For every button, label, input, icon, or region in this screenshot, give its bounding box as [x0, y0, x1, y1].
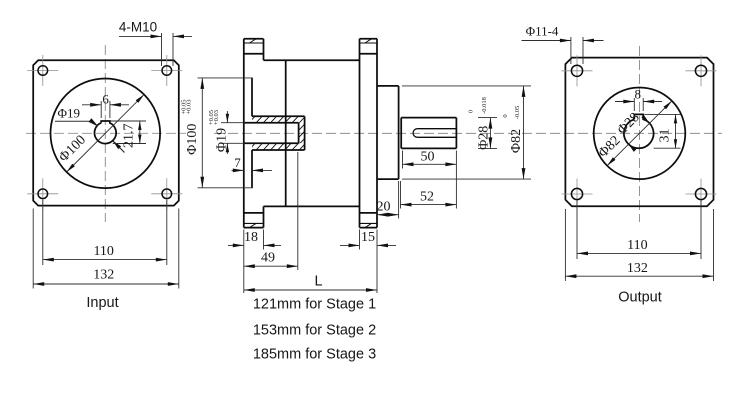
sleeve hatch top band — [248, 115, 314, 123]
dimension 31 output keyway depth — [645, 114, 681, 148]
input flange square outline — [33, 60, 179, 205]
input mounting hole bottom-left — [38, 189, 48, 199]
dimension 132 input flange width — [33, 209, 179, 289]
svg-text:110: 110 — [93, 244, 113, 259]
svg-text:0: 0 — [502, 114, 509, 117]
output mounting hole top-right — [695, 65, 706, 76]
dimension 49 input section length — [244, 152, 298, 270]
input flange section hatch bottom — [250, 223, 257, 227]
output flange vertical centerline — [639, 46, 641, 222]
svg-text:+0.03: +0.03 — [213, 110, 220, 125]
svg-text:-0.05: -0.05 — [514, 106, 521, 120]
input mounting hole top-right centerlines — [151, 55, 182, 86]
gearbox body outline — [264, 60, 360, 206]
output flange section hatch top — [365, 39, 372, 43]
input mounting hole top-right — [162, 66, 172, 76]
dimension D100 pilot circle — [56, 95, 144, 172]
input mounting hole top-left — [38, 66, 48, 76]
dimension D82 output boss with tolerance — [402, 86, 531, 179]
input mounting hole bottom-left centerlines — [27, 178, 58, 209]
output shaft keyway slot — [413, 129, 456, 138]
input flange section outline — [244, 39, 264, 228]
svg-text:18: 18 — [244, 230, 258, 245]
label Input — [86, 295, 118, 311]
input flange horizontal centerline — [26, 132, 186, 134]
input mounting hole top-left centerlines — [27, 55, 58, 86]
sleeve hatch right band — [298, 123, 306, 153]
label D19 input bore — [55, 106, 125, 153]
svg-text:132: 132 — [627, 261, 648, 276]
dimension 18 input flange thickness — [228, 230, 281, 294]
output shaft outline — [401, 118, 456, 149]
svg-text:Φ100: Φ100 — [185, 124, 200, 155]
dimension 110 output bolt spacing — [577, 200, 701, 259]
svg-text:121mm for Stage 1: 121mm for Stage 1 — [253, 297, 376, 313]
svg-text:Φ19: Φ19 — [214, 128, 229, 152]
svg-text:49: 49 — [261, 251, 275, 266]
dimension 8 output keyway width — [615, 87, 662, 112]
input mounting hole bottom-right — [162, 189, 172, 199]
svg-text:110: 110 — [627, 238, 647, 253]
output mounting hole top-right centerlines — [686, 55, 717, 86]
dimension D11-4 output holes — [522, 24, 604, 65]
label Output — [618, 290, 662, 306]
dimension D82 output pilot circle — [596, 101, 672, 166]
svg-text:50: 50 — [421, 150, 435, 165]
dimension 4-M10 tapped holes — [119, 20, 192, 67]
note stage 1 length — [253, 297, 376, 313]
svg-text:Φ19: Φ19 — [58, 106, 81, 121]
svg-text:Φ11-4: Φ11-4 — [526, 24, 559, 39]
svg-text:52: 52 — [420, 190, 434, 205]
svg-text:+0.03: +0.03 — [185, 99, 192, 114]
dimension 52 output shaft length — [401, 181, 457, 209]
svg-text:Output: Output — [618, 290, 662, 306]
svg-text:-0.018: -0.018 — [481, 97, 488, 114]
svg-text:Φ82: Φ82 — [509, 129, 524, 153]
sleeve hatch bottom band — [248, 142, 314, 151]
input coupling sleeve outline — [244, 116, 305, 150]
svg-text:153mm for Stage 2: 153mm for Stage 2 — [253, 323, 376, 339]
output mounting hole top-left centerlines — [562, 55, 593, 86]
input pilot circle D100 — [51, 79, 161, 189]
dimension 50 shaft key length — [403, 150, 457, 209]
dimension D28 output shaft with tolerance — [468, 97, 498, 150]
dimension 7 spigot depth — [232, 155, 273, 173]
svg-text:Input: Input — [86, 295, 118, 311]
output mounting hole bottom-left — [571, 188, 582, 199]
output flange section hatch bottom — [365, 223, 372, 227]
svg-text:8: 8 — [635, 87, 642, 102]
input flange vertical centerline — [104, 45, 106, 222]
dimension 15 output flange thickness — [340, 230, 396, 294]
svg-text:31: 31 — [657, 129, 672, 143]
output mounting hole top-left — [571, 65, 582, 76]
output flange square outline — [565, 58, 713, 207]
note stage 2 length — [253, 323, 376, 339]
output flange section outline — [360, 39, 378, 228]
svg-text:20: 20 — [377, 199, 391, 214]
svg-text:7: 7 — [234, 155, 241, 170]
svg-text:132: 132 — [93, 268, 114, 283]
svg-text:15: 15 — [361, 230, 375, 245]
output mounting hole bottom-left centerlines — [562, 179, 593, 210]
input mounting hole bottom-right centerlines — [151, 178, 182, 209]
dimension D19 input bore with tolerance — [208, 110, 244, 154]
output bore D28 with keyway — [624, 114, 654, 148]
svg-text:Φ28: Φ28 — [477, 126, 492, 150]
svg-text:L: L — [314, 274, 322, 290]
svg-text:21.7: 21.7 — [122, 124, 137, 149]
dimension 132 output flange width — [565, 209, 713, 281]
dimension 110 input bolt spacing — [43, 200, 167, 265]
dimension D28 output bore — [615, 110, 649, 152]
svg-text:185mm for Stage 3: 185mm for Stage 3 — [253, 347, 376, 363]
input spigot face line — [251, 78, 253, 188]
output mounting hole bottom-right — [695, 188, 706, 199]
dimension 20 output boss length — [377, 181, 399, 219]
svg-text:6: 6 — [102, 91, 109, 106]
output pilot circle D82 — [594, 88, 686, 180]
main horizontal centerline — [214, 132, 722, 134]
input shaft bore D19 with keyway — [95, 121, 117, 144]
dimension 6 keyway width — [82, 91, 129, 118]
svg-text:0: 0 — [468, 110, 475, 113]
dimension 21.7 keyway depth — [111, 121, 147, 148]
note stage 3 length — [253, 347, 376, 363]
dimension D100 spigot with tolerance — [180, 78, 252, 188]
svg-text:4-M10: 4-M10 — [119, 20, 157, 35]
dimension L overall length — [244, 274, 377, 292]
output mounting hole bottom-right centerlines — [686, 179, 717, 210]
output boss D82 outline — [377, 86, 399, 179]
input flange section hatch top — [250, 39, 257, 43]
